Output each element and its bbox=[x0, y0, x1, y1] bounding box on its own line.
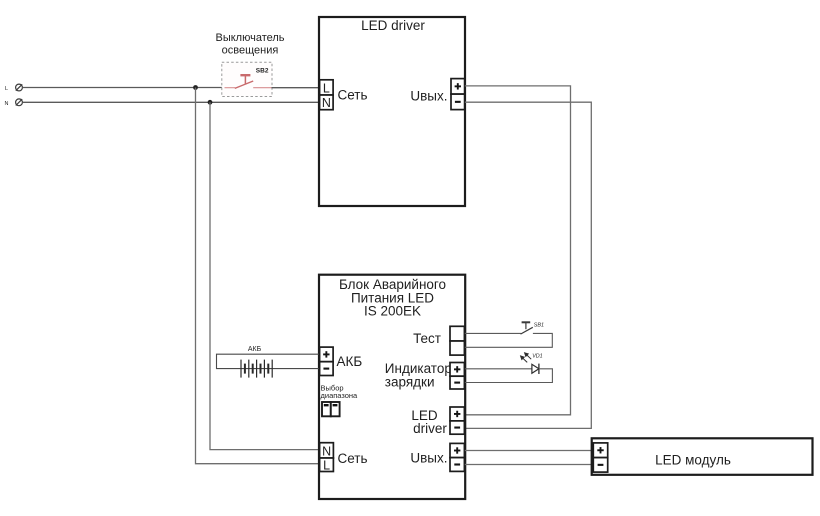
svg-text:L: L bbox=[323, 81, 330, 95]
emergency unit terminal Uвых + bbox=[450, 443, 464, 457]
svg-text:АКБ: АКБ bbox=[337, 354, 363, 369]
wire Uвых- down to emergency LED driver - bbox=[465, 102, 592, 428]
wire L from input to switch SB2 bbox=[22, 87, 235, 89]
emergency unit terminal Тест bottom bbox=[450, 341, 464, 355]
junction on L wire bbox=[193, 85, 198, 90]
emergency unit terminal LED driver - bbox=[450, 421, 464, 434]
LED driver terminal Uвых + bbox=[451, 79, 465, 95]
switch SB1 actuator bbox=[525, 323, 527, 330]
svg-text:диапазона: диапазона bbox=[321, 391, 359, 400]
wire from L junction down to emergency unit L terminal bbox=[196, 88, 320, 464]
emergency unit terminal Uвых - bbox=[450, 458, 464, 472]
emergency unit terminal Сеть N bbox=[320, 443, 334, 458]
test loop return wire bbox=[465, 333, 553, 347]
LED module box bbox=[592, 438, 813, 475]
svg-text:IS 200EK: IS 200EK bbox=[364, 304, 421, 319]
battery wiring loop bbox=[217, 354, 320, 368]
emergency unit terminal Тест top bbox=[450, 326, 464, 341]
emergency power unit box bbox=[319, 275, 465, 499]
LED module terminal + bbox=[593, 443, 607, 458]
wire Uвых- to LED module - bbox=[465, 464, 594, 466]
junction on N wire bbox=[208, 100, 213, 105]
switch SB2 dashed enclosure bbox=[222, 62, 272, 96]
wire Uвых+ to LED module + bbox=[465, 450, 594, 452]
svg-text:N: N bbox=[5, 101, 9, 107]
LED driver box bbox=[319, 17, 465, 206]
svg-text:освещения: освещения bbox=[222, 45, 279, 57]
input terminal L (mains phase) bbox=[16, 84, 23, 91]
svg-text:Выключатель: Выключатель bbox=[215, 32, 284, 44]
LED driver terminal L bbox=[320, 80, 334, 95]
VD1 emission arrows bbox=[521, 353, 532, 363]
emergency unit terminal LED driver + bbox=[450, 407, 464, 421]
svg-text:N: N bbox=[322, 96, 331, 110]
indicator loop return wire bbox=[465, 369, 553, 383]
wire N from input to LED driver N terminal bbox=[22, 101, 319, 103]
svg-text:зарядки: зарядки bbox=[385, 374, 435, 389]
LED driver terminal N bbox=[320, 95, 334, 110]
emergency unit terminal АКБ + bbox=[320, 347, 334, 362]
indicator loop wire bbox=[465, 368, 532, 370]
svg-text:Сеть: Сеть bbox=[338, 88, 368, 103]
LED VD1 bbox=[532, 364, 539, 374]
battery GB (АКБ cells) bbox=[241, 360, 272, 378]
svg-text:SB2: SB2 bbox=[256, 68, 269, 75]
svg-text:Сеть: Сеть bbox=[338, 451, 368, 466]
test loop wire with switch SB1 bbox=[465, 332, 521, 334]
svg-text:АКБ: АКБ bbox=[248, 346, 262, 353]
switch SB1 blade bbox=[521, 327, 533, 334]
emergency unit terminal indicator + bbox=[450, 363, 464, 377]
LED module terminal - bbox=[593, 458, 607, 473]
LED driver terminal Uвых - bbox=[451, 94, 465, 110]
svg-text:L: L bbox=[5, 86, 8, 92]
svg-text:LED driver: LED driver bbox=[361, 18, 425, 33]
svg-text:driver: driver bbox=[413, 421, 447, 436]
svg-text:L: L bbox=[323, 458, 330, 472]
svg-text:Тест: Тест bbox=[413, 331, 441, 346]
svg-text:Uвых.: Uвых. bbox=[410, 89, 447, 104]
emergency unit terminal АКБ - bbox=[320, 362, 334, 376]
wire Uвых+ down to emergency LED driver + bbox=[465, 86, 571, 415]
range selector connector bbox=[322, 402, 340, 416]
wire from SB2 to LED driver L terminal bbox=[272, 87, 320, 89]
svg-text:N: N bbox=[322, 444, 331, 458]
emergency unit terminal indicator - bbox=[450, 376, 464, 389]
svg-text:SB1: SB1 bbox=[534, 322, 544, 328]
wire from N junction down to emergency unit N terminal bbox=[210, 102, 320, 449]
svg-text:Uвых.: Uвых. bbox=[410, 450, 447, 465]
switch SB2 (push button, red) bbox=[225, 75, 272, 88]
svg-text:VD1: VD1 bbox=[532, 354, 543, 360]
svg-text:LED модуль: LED модуль bbox=[655, 452, 731, 467]
emergency unit terminal Сеть L bbox=[320, 458, 334, 472]
input terminal N (mains neutral) bbox=[16, 99, 23, 106]
